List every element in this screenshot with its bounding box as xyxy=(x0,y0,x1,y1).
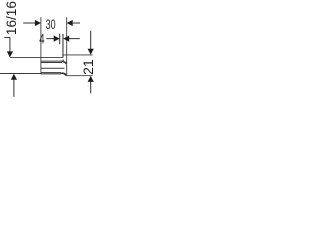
part bottom edge lower xyxy=(41,73,61,75)
arrow down (16/16) xyxy=(7,51,13,57)
arrow down (21 top) xyxy=(88,49,94,55)
dim 21 top extension line xyxy=(63,54,93,56)
dim 4 right extension + lip inner edge xyxy=(62,34,64,58)
part inner hook curve xyxy=(63,60,67,63)
leader line from 16/16 arrow to part top surface xyxy=(10,56,63,58)
nose dark mass xyxy=(62,72,67,75)
part inner band upper xyxy=(41,60,63,62)
dim 16/16 bottom shaft xyxy=(13,79,15,96)
dim 30 left shaft xyxy=(23,22,36,24)
svg-text:16/16: 16/16 xyxy=(4,1,20,35)
arrow left (4 right) xyxy=(63,36,69,42)
arrow right (4 left) xyxy=(54,36,60,42)
dim 16/16 top tick xyxy=(4,37,10,39)
svg-text:30: 30 xyxy=(46,17,56,33)
dim 4 right shaft xyxy=(68,38,80,40)
dim 30 right extension + part front face xyxy=(66,17,68,74)
bottom-left extension line xyxy=(0,72,41,74)
part bottom front rounded nose xyxy=(61,73,66,75)
dim 30 right shaft xyxy=(73,22,80,24)
dim 4 left extension stub xyxy=(59,34,61,44)
front face bottom join xyxy=(65,74,68,76)
svg-text:21: 21 xyxy=(81,59,97,75)
dim 4 left shaft xyxy=(46,38,55,40)
dim 21 top shaft xyxy=(90,31,92,50)
part inner band wrap into front xyxy=(62,62,67,65)
arrow up (16/16 bottom) xyxy=(11,74,17,80)
dim 30 left extension + part left edge xyxy=(40,17,42,74)
arrow right (30 left) xyxy=(35,20,41,26)
svg-text:4: 4 xyxy=(39,31,44,47)
dim 16/16 vertical shaft xyxy=(9,38,11,54)
dim 21 bottom extension line xyxy=(66,75,93,77)
dim 21 bottom shaft xyxy=(90,81,92,93)
part inner band lower xyxy=(41,62,62,64)
arrow up (21 bottom) xyxy=(88,76,94,82)
part bottom edge upper xyxy=(41,72,62,74)
arrow left (30 right) xyxy=(67,20,73,26)
part mid inner line xyxy=(41,67,65,69)
